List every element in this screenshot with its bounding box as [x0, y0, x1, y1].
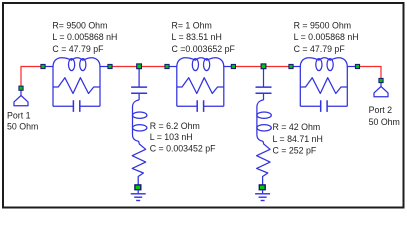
svg-text:C = 0.003452 pF: C = 0.003452 pF — [150, 144, 216, 154]
svg-text:L = 83.51 nH: L = 83.51 nH — [172, 32, 222, 42]
svg-text:L = 0.005868 nH: L = 0.005868 nH — [52, 32, 117, 42]
svg-text:Port 1: Port 1 — [7, 111, 31, 121]
svg-text:R = 6.2 Ohm: R = 6.2 Ohm — [150, 121, 200, 131]
svg-text:Port 2: Port 2 — [369, 105, 393, 115]
svg-text:L = 103 nH: L = 103 nH — [150, 132, 193, 142]
svg-text:C =0.003652 pF: C =0.003652 pF — [172, 44, 236, 54]
svg-text:50 Ohm: 50 Ohm — [7, 121, 38, 131]
svg-text:L = 0.005868 nH: L = 0.005868 nH — [294, 32, 359, 42]
svg-text:R= 1 Ohm: R= 1 Ohm — [172, 20, 212, 30]
svg-text:R = 9500 Ohm: R = 9500 Ohm — [294, 20, 351, 30]
svg-text:R = 42 Ohm: R = 42 Ohm — [273, 122, 321, 132]
svg-text:L = 84.71 nH: L = 84.71 nH — [273, 134, 323, 144]
svg-text:R= 9500 Ohm: R= 9500 Ohm — [52, 20, 107, 30]
svg-text:C = 47.79 pF: C = 47.79 pF — [52, 44, 104, 54]
svg-text:C = 252 pF: C = 252 pF — [273, 146, 317, 156]
svg-text:50 Ohm: 50 Ohm — [369, 117, 400, 127]
svg-text:C = 47.79 pF: C = 47.79 pF — [294, 44, 346, 54]
